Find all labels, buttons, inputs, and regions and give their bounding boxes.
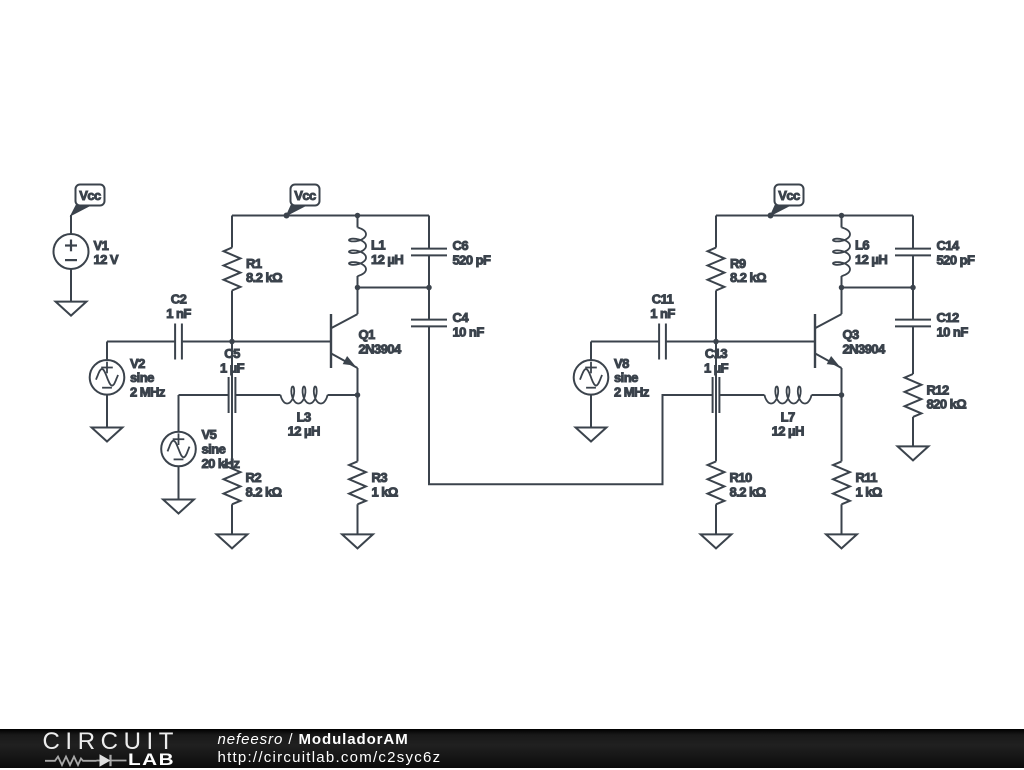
svg-text:R12: R12 (927, 382, 950, 397)
svg-text:R10: R10 (730, 470, 753, 485)
svg-text:1 kΩ: 1 kΩ (372, 484, 398, 499)
svg-text:V1: V1 (94, 238, 109, 253)
svg-text:20 kHz: 20 kHz (202, 456, 241, 471)
svg-text:1 nF: 1 nF (166, 306, 191, 321)
wire emitter row left (179, 394, 229, 396)
wire L bottom link (842, 287, 914, 289)
svg-text:Vcc: Vcc (79, 188, 101, 203)
wire base to R2 (231, 342, 233, 462)
wire L bottom link (358, 287, 430, 289)
svg-text:L7: L7 (781, 409, 795, 424)
wire base rail right (182, 341, 331, 343)
svg-text:8.2 kΩ: 8.2 kΩ (730, 484, 766, 499)
junction dot emitter node (355, 392, 361, 398)
svg-text:V2: V2 (130, 356, 145, 371)
svg-text:1 kΩ: 1 kΩ (856, 484, 882, 499)
svg-text:520 pF: 520 pF (937, 253, 975, 268)
svg-text:10 nF: 10 nF (937, 324, 969, 339)
svg-text:R2: R2 (246, 470, 262, 485)
ground below R10 (701, 534, 732, 548)
Vcc flag stage1 (284, 185, 320, 219)
svg-text:V5: V5 (202, 427, 217, 442)
transistor Q3 (815, 288, 886, 396)
svg-text:Q3: Q3 (843, 327, 860, 342)
junction dot rail/L1 top (355, 213, 361, 219)
svg-text:sine: sine (614, 370, 638, 385)
inductor L3 (281, 387, 328, 439)
wire base rail right (666, 341, 815, 343)
capacitor C5 (220, 346, 245, 413)
svg-text:2N3904: 2N3904 (359, 341, 403, 356)
Vcc flag stage2 (768, 185, 804, 219)
svg-text:2 MHz: 2 MHz (130, 384, 166, 399)
svg-text:R1: R1 (246, 256, 262, 271)
Vcc flag V1 (71, 185, 105, 216)
sine source V5 (161, 395, 240, 500)
svg-text:sine: sine (130, 370, 154, 385)
junction dot base node (229, 339, 235, 345)
svg-text:C6: C6 (453, 238, 469, 253)
ground below R3 (342, 534, 373, 548)
ground below V2 (92, 428, 123, 442)
wire top rail stage1 (232, 215, 429, 217)
ground below V1 (56, 302, 87, 316)
svg-text:12 µH: 12 µH (772, 424, 804, 439)
ground below R12 (898, 446, 929, 460)
svg-text:820 kΩ: 820 kΩ (927, 397, 967, 412)
resistor R11 (833, 395, 882, 534)
svg-text:C2: C2 (171, 292, 187, 307)
sine source V2 (90, 342, 166, 428)
wire top rail stage2 (716, 215, 913, 217)
junction dot collector node (839, 285, 845, 291)
transistor Q1 (331, 288, 402, 396)
capacitor C6 (411, 216, 491, 288)
svg-text:12 µH: 12 µH (371, 252, 403, 267)
svg-text:C11: C11 (652, 292, 674, 307)
svg-text:12 µH: 12 µH (855, 252, 887, 267)
svg-text:2 MHz: 2 MHz (614, 384, 650, 399)
svg-text:520 pF: 520 pF (453, 253, 491, 268)
ground below R11 (826, 534, 857, 548)
svg-text:R3: R3 (372, 470, 388, 485)
capacitor C11 (650, 292, 675, 360)
svg-text:C14: C14 (937, 238, 961, 253)
wire base rail left (107, 341, 175, 343)
capacitor C14 (895, 216, 975, 288)
wire emitter row right (328, 394, 358, 396)
svg-text:R11: R11 (856, 470, 878, 485)
voltage source V1 (54, 215, 119, 302)
svg-text:C12: C12 (937, 310, 960, 325)
svg-text:C4: C4 (453, 310, 470, 325)
junction dot base node (713, 339, 719, 345)
capacitor C13 (704, 346, 729, 413)
svg-text:8.2 kΩ: 8.2 kΩ (730, 270, 766, 285)
svg-text:sine: sine (202, 442, 226, 457)
svg-text:2N3904: 2N3904 (843, 341, 887, 356)
svg-text:12 µH: 12 µH (288, 424, 320, 439)
capacitor C2 (166, 292, 191, 360)
wire base to R10 (715, 342, 717, 462)
junction dot cap branch (426, 285, 432, 291)
svg-text:10 nF: 10 nF (453, 324, 485, 339)
svg-text:Q1: Q1 (359, 327, 376, 342)
inductor L6 (833, 216, 887, 288)
wire interstage link (429, 326, 713, 484)
ground below V8 (576, 428, 607, 442)
junction dot cap branch (910, 285, 916, 291)
svg-text:L6: L6 (855, 238, 869, 253)
sine source V8 (574, 342, 650, 428)
svg-text:R9: R9 (730, 256, 746, 271)
junction dot collector node (355, 285, 361, 291)
capacitor C12 (895, 288, 968, 340)
resistor R10 (708, 461, 766, 534)
svg-text:1 nF: 1 nF (650, 306, 675, 321)
svg-text:Vcc: Vcc (294, 188, 316, 203)
svg-text:L3: L3 (297, 409, 311, 424)
resistor R9 (708, 216, 767, 342)
wire emitter row mid (719, 394, 764, 396)
svg-text:V8: V8 (614, 356, 629, 371)
CircuitLab logo (43, 728, 180, 756)
wire emitter row mid (235, 394, 280, 396)
wire emitter row right (812, 394, 842, 396)
resistor R12 (905, 326, 967, 446)
LAB wordmark (128, 750, 175, 770)
wire base rail left (591, 341, 659, 343)
resistor R1 (224, 216, 283, 342)
footer title (218, 731, 409, 748)
logo resistor-diode graphic (45, 754, 127, 765)
footer url (218, 749, 442, 766)
svg-text:Vcc: Vcc (778, 188, 800, 203)
svg-text:L1: L1 (371, 238, 385, 253)
resistor R2 (224, 461, 282, 534)
inductor L7 (765, 387, 812, 439)
wire emitter row left (663, 394, 713, 396)
inductor L1 (349, 216, 403, 288)
svg-text:8.2 kΩ: 8.2 kΩ (246, 484, 282, 499)
resistor R3 (349, 395, 398, 534)
capacitor C4 (411, 288, 484, 340)
junction dot emitter node (839, 392, 845, 398)
ground below V5 (163, 500, 194, 514)
ground below R2 (217, 534, 248, 548)
svg-text:8.2 kΩ: 8.2 kΩ (246, 270, 282, 285)
junction dot rail/L6 top (839, 213, 845, 219)
svg-text:12 V: 12 V (94, 252, 119, 267)
